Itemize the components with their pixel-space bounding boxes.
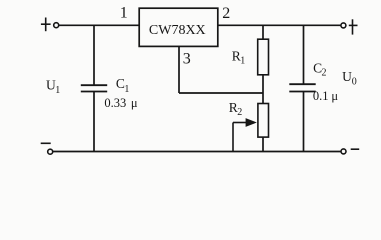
label C1 (116, 76, 129, 95)
op-amp U (regulator CW78XX box) (139, 8, 218, 46)
label R1 (232, 49, 246, 67)
svg-text:1: 1 (120, 5, 128, 22)
svg-text:2: 2 (322, 67, 327, 78)
svg-text:U: U (342, 69, 352, 84)
svg-text:CW78XX: CW78XX (149, 23, 206, 38)
wire R1 to R2 (262, 75, 264, 104)
capacitor C1 (81, 85, 107, 91)
resistor R1 (258, 39, 269, 75)
svg-text:0.1: 0.1 (313, 89, 329, 103)
svg-text:2: 2 (222, 5, 230, 22)
wiper arrow of R2 (233, 118, 257, 151)
label U1 (46, 78, 60, 97)
terminal input + (top-left) (41, 18, 59, 32)
svg-text:μ: μ (131, 96, 138, 110)
terminal input - (bottom-left) (41, 143, 53, 154)
wire R2 to bottom rail (262, 137, 264, 151)
wire pin 3 (179, 46, 263, 93)
wire C2 top branch (303, 25, 305, 84)
terminal output - (bottom-right) (341, 149, 359, 154)
wire C2 to bottom rail (303, 92, 305, 152)
wire top-left rail (59, 24, 140, 26)
svg-text:0.33: 0.33 (104, 96, 126, 110)
terminal output + (top-right) (341, 19, 358, 34)
svg-text:1: 1 (124, 84, 129, 95)
wire top-right rail (218, 24, 341, 26)
label R2 (229, 100, 243, 118)
svg-text:3: 3 (183, 51, 191, 68)
label U0 (342, 69, 357, 88)
svg-text:1: 1 (55, 85, 60, 96)
node C1 top junction (93, 25, 95, 85)
svg-text:μ: μ (331, 89, 338, 103)
wire C1 to bottom rail (93, 92, 95, 152)
svg-text:1: 1 (240, 56, 245, 67)
capacitor C2 (289, 84, 315, 91)
svg-text:0: 0 (352, 77, 357, 88)
wire R1 top branch (262, 25, 264, 39)
wire bottom rail (53, 151, 342, 153)
svg-text:2: 2 (237, 107, 242, 118)
label C2 (313, 60, 326, 78)
resistor R2 (potentiometer) (258, 104, 269, 138)
